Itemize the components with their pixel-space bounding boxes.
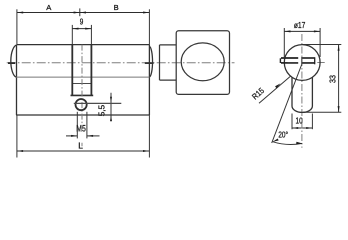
svg-text:M5: M5 (76, 124, 86, 134)
svg-text:33: 33 (328, 75, 337, 83)
svg-text:ø17: ø17 (294, 20, 306, 30)
svg-text:B: B (114, 3, 119, 12)
svg-text:10: 10 (296, 116, 303, 126)
svg-text:L: L (78, 140, 83, 150)
svg-text:9: 9 (80, 17, 84, 27)
svg-text:20°: 20° (278, 130, 288, 140)
